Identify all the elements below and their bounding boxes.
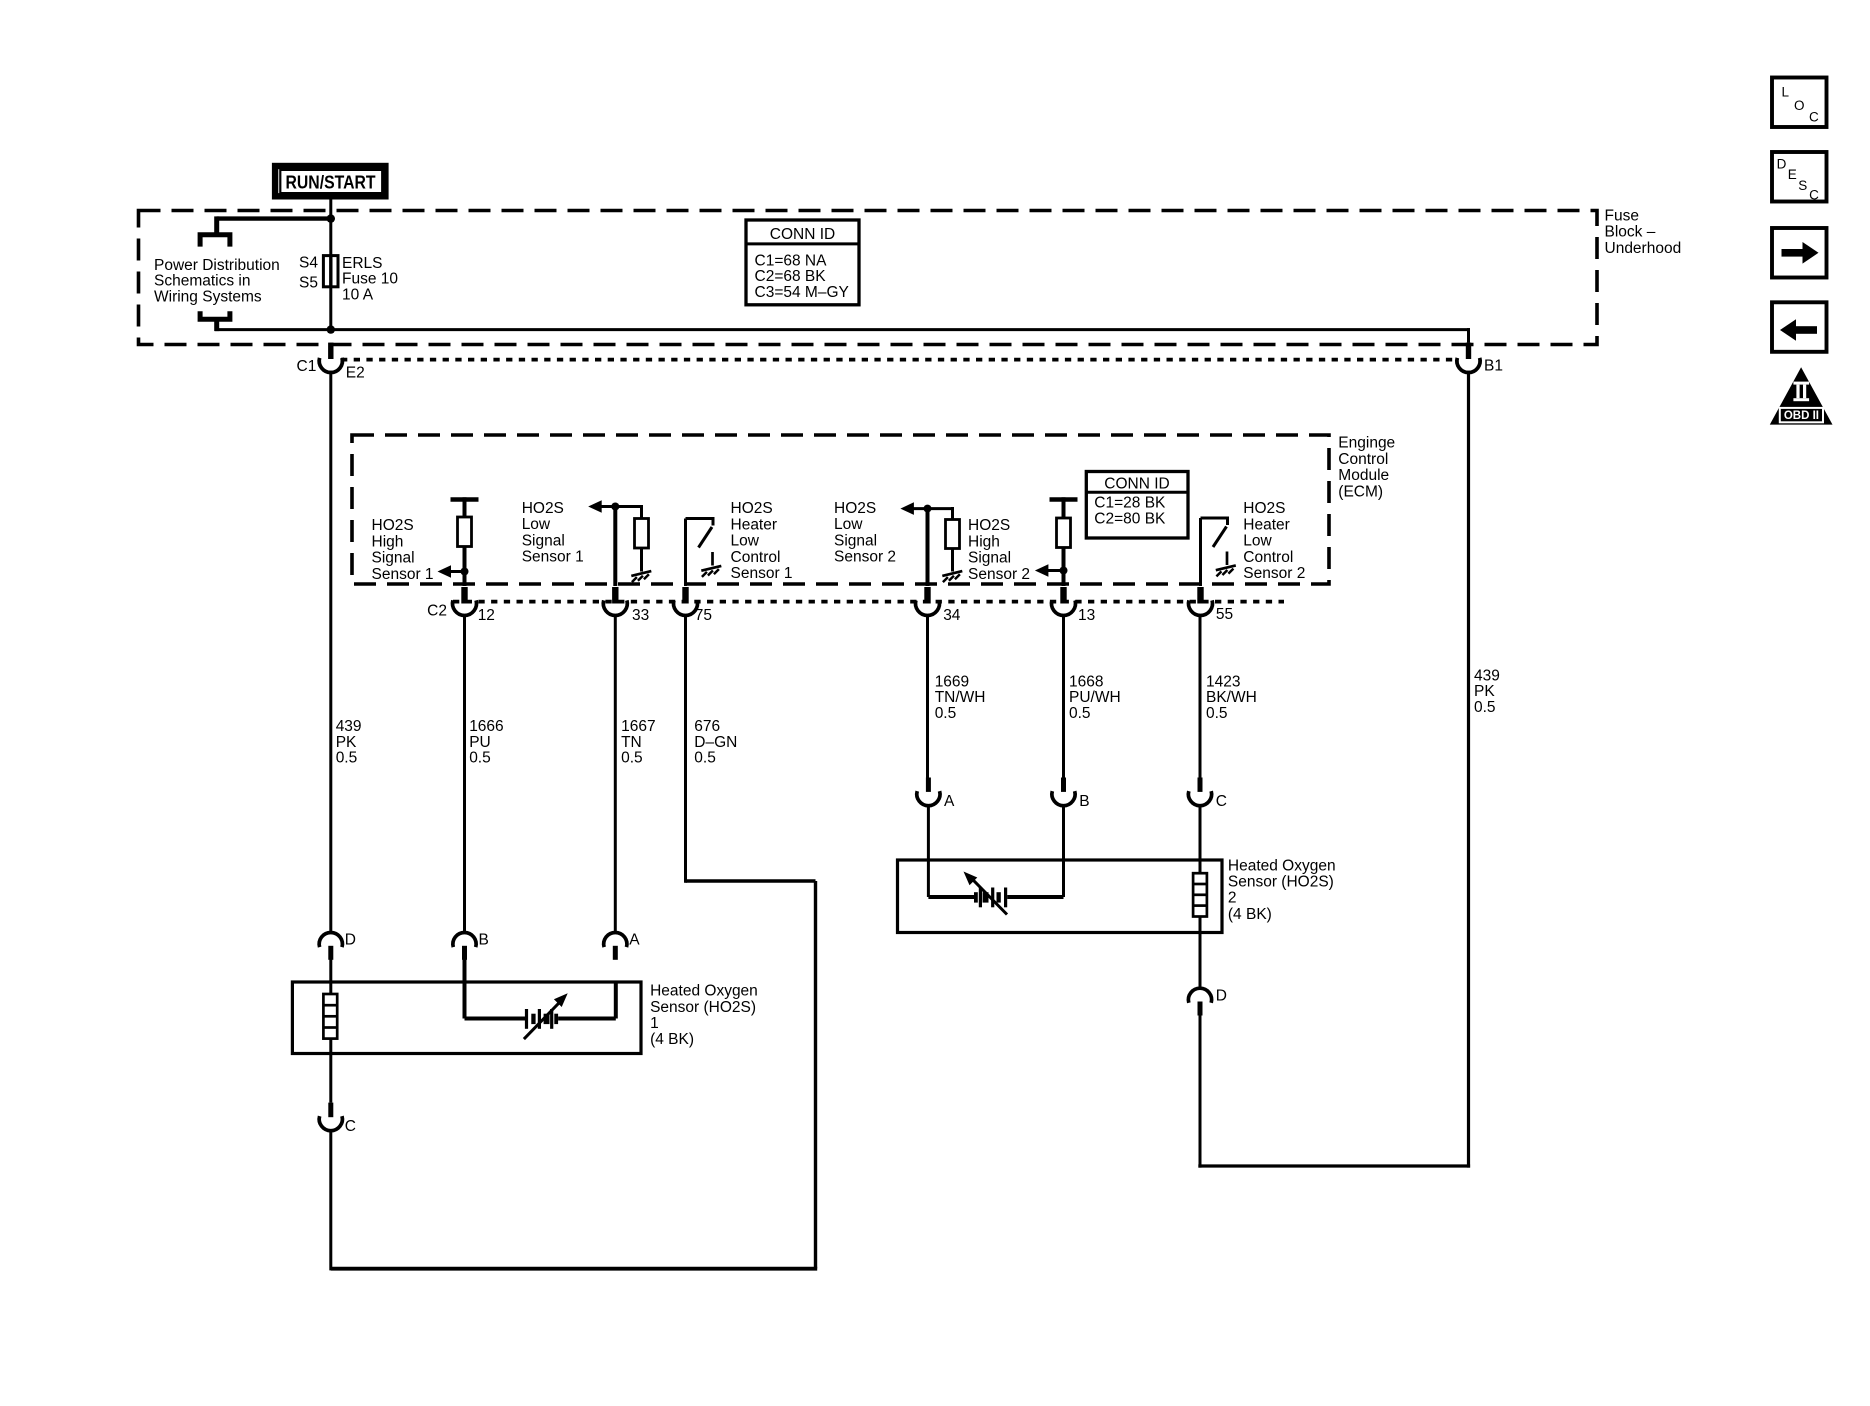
- svg-text:(ECM): (ECM): [1338, 483, 1383, 500]
- label pin C HO2S2: [1216, 793, 1227, 810]
- svg-text:B: B: [479, 932, 489, 949]
- svg-text:PK: PK: [336, 734, 357, 751]
- svg-text:Underhood: Underhood: [1605, 240, 1682, 257]
- label pin B HO2S1: [479, 932, 489, 949]
- svg-text:C1=28 BK: C1=28 BK: [1094, 494, 1166, 511]
- wire R2 to ground: [640, 548, 643, 572]
- wire pin D into heater element: [329, 960, 332, 996]
- svg-text:0.5: 0.5: [621, 750, 643, 767]
- label pin D HO2S1: [345, 932, 356, 949]
- label wire 1669 TN/WH 0.5: [935, 673, 986, 721]
- HO2S2 sensor box: [898, 860, 1223, 933]
- power distribution reference bracket top: [200, 235, 230, 247]
- svg-text:S4: S4: [299, 255, 318, 272]
- variable arrow HO2S1: [524, 993, 568, 1039]
- connector pin B HO2S2: [1052, 778, 1075, 806]
- resistor R4 HO2S high signal 2: [1057, 518, 1071, 548]
- label HO2S Heater Low Control Sensor 2: [1243, 500, 1305, 582]
- wire pin D to bottom right corner: [1199, 1015, 1202, 1167]
- junction dot pin 34 wire: [924, 505, 932, 513]
- svg-text:HO2S: HO2S: [968, 517, 1010, 534]
- wire heater element to pin C: [329, 1039, 332, 1103]
- svg-text:1: 1: [650, 1015, 659, 1032]
- fuse ERLS Fuse 10 10 A: [323, 255, 338, 287]
- ground HO2S heater 1: [701, 552, 721, 577]
- svg-text:Heated Oxygen: Heated Oxygen: [650, 983, 758, 1000]
- ECM pin 34 connector: [915, 587, 939, 615]
- svg-text:High: High: [968, 533, 1000, 550]
- label wire 1423 BK/WH 0.5: [1206, 673, 1257, 721]
- svg-text:1669: 1669: [935, 673, 969, 690]
- svg-text:13: 13: [1078, 607, 1095, 624]
- label wire 1666 PU 0.5: [469, 718, 503, 766]
- connector C1 pin E2 of fuse block: [319, 343, 342, 373]
- wire 1669 TN-WH from pin 34: [926, 614, 929, 778]
- wire pin C to bottom loop: [329, 1129, 332, 1270]
- connector pin A HO2S2: [917, 778, 940, 806]
- svg-text:C1=68 NA: C1=68 NA: [755, 253, 828, 270]
- connector line dotted ECM C2 row: [453, 600, 1284, 604]
- resistor R1 HO2S high signal 1: [458, 517, 472, 547]
- wire pin C to heater element HO2S2: [1199, 804, 1202, 874]
- svg-text:1666: 1666: [469, 718, 503, 735]
- CONN ID table ECM: [1086, 472, 1188, 539]
- svg-text:676: 676: [694, 718, 720, 735]
- svg-text:Sensor 1: Sensor 1: [731, 565, 793, 582]
- ignition switch voltage RUN/START box: [275, 166, 385, 196]
- svg-text:C: C: [1809, 187, 1819, 202]
- arrow to Low Signal Sensor 1 label: [588, 500, 641, 513]
- wire 1668 PU-WH from pin 13: [1062, 614, 1065, 778]
- label pin A HO2S1: [629, 932, 640, 949]
- svg-text:TN/WH: TN/WH: [935, 689, 986, 706]
- wire branch to R3: [951, 507, 954, 520]
- svg-text:PK: PK: [1474, 683, 1495, 700]
- label pin A HO2S2: [944, 793, 955, 810]
- svg-text:C3=54 M–GY: C3=54 M–GY: [755, 284, 849, 301]
- svg-text:PU: PU: [469, 734, 491, 751]
- wire branch to R2: [640, 505, 643, 519]
- label HO2S High Signal Sensor 1: [372, 517, 434, 583]
- svg-text:10 A: 10 A: [342, 286, 374, 303]
- wire pin B inside box: [465, 960, 526, 1019]
- ECM pin 12 connector: [453, 587, 477, 615]
- connector pin A HO2S1: [604, 932, 627, 959]
- svg-text:A: A: [629, 932, 640, 949]
- svg-text:Fuse 10: Fuse 10: [342, 271, 398, 288]
- svg-text:1423: 1423: [1206, 673, 1240, 690]
- svg-text:0.5: 0.5: [1069, 705, 1091, 722]
- arrow to Sensor 2 label: [1035, 564, 1064, 577]
- svg-text:0.5: 0.5: [694, 750, 716, 767]
- wire 1423 BK-WH from pin 55: [1199, 614, 1202, 778]
- wire heater element to pin D HO2S2: [1199, 917, 1202, 988]
- svg-text:HO2S: HO2S: [372, 517, 414, 534]
- label S4 S5 splice ids: [299, 255, 318, 292]
- svg-text:HO2S: HO2S: [834, 500, 876, 517]
- junction dot fuse output bus: [327, 325, 335, 333]
- label wire 1667 TN 0.5: [621, 718, 655, 766]
- label ERLS Fuse 10 10 A: [342, 255, 398, 303]
- wire pin 55: [1199, 518, 1202, 586]
- svg-text:A: A: [944, 793, 955, 810]
- junction dot pin 13 wire: [1060, 567, 1068, 575]
- svg-text:C1: C1: [297, 358, 317, 375]
- label E2: [346, 365, 365, 382]
- svg-text:439: 439: [336, 718, 362, 735]
- junction dot pin 33 wire: [611, 503, 619, 511]
- ground HO2S heater 2: [1216, 552, 1236, 577]
- label wire 439 PK 0.5 left: [336, 718, 362, 766]
- label HO2S Heater Low Control Sensor 1: [731, 500, 793, 582]
- icon back arrow box: [1772, 302, 1827, 352]
- wire pin 33: [613, 507, 617, 587]
- label HO2S Low Signal Sensor 1: [522, 500, 584, 566]
- svg-text:Control: Control: [1338, 451, 1388, 468]
- svg-text:Signal: Signal: [834, 532, 877, 549]
- svg-text:55: 55: [1216, 606, 1233, 623]
- svg-text:E: E: [1788, 167, 1797, 182]
- svg-text:HO2S: HO2S: [731, 500, 773, 517]
- label pin 33: [632, 607, 649, 624]
- svg-text:Schematics in: Schematics in: [154, 273, 250, 290]
- svg-text:CONN ID: CONN ID: [1104, 475, 1169, 492]
- connector pin D HO2S2: [1188, 988, 1211, 1015]
- connector pin C HO2S1: [319, 1103, 342, 1131]
- ground HO2S low signal 1: [631, 571, 651, 582]
- svg-text:Sensor (HO2S): Sensor (HO2S): [650, 999, 756, 1016]
- svg-text:HO2S: HO2S: [522, 500, 564, 517]
- label pin 75: [695, 607, 712, 624]
- svg-text:Signal: Signal: [968, 550, 1011, 567]
- svg-text:(4 BK): (4 BK): [650, 1031, 694, 1048]
- svg-text:0.5: 0.5: [469, 750, 491, 767]
- svg-text:Power Distribution: Power Distribution: [154, 257, 280, 274]
- svg-text:Wiring Systems: Wiring Systems: [154, 288, 262, 305]
- icon DESC box: [1772, 152, 1827, 202]
- svg-text:2: 2: [1228, 890, 1237, 907]
- variable sense element HO2S2 plates: [974, 888, 1007, 908]
- power distribution reference bracket bottom: [200, 311, 230, 319]
- label Power Distribution Schematics in Wiring Systems: [154, 257, 280, 305]
- label Heated Oxygen Sensor (HO2S) 1 (4 BK): [650, 983, 758, 1048]
- label wire 676 D-GN 0.5: [694, 718, 737, 766]
- wire fuse output to bus: [329, 287, 332, 331]
- driver switch HO2S heater 2: [1201, 517, 1228, 548]
- svg-text:Signal: Signal: [522, 532, 565, 549]
- svg-text:D: D: [1777, 156, 1787, 171]
- ground HO2S low signal 2: [942, 571, 962, 582]
- label pin 12: [478, 607, 495, 624]
- svg-text:Low: Low: [1243, 533, 1272, 550]
- svg-text:C2=68 BK: C2=68 BK: [755, 268, 827, 285]
- icon OBD II triangle: [1770, 367, 1833, 424]
- resistor R3 HO2S low signal 2: [946, 520, 960, 549]
- svg-text:D: D: [345, 932, 356, 949]
- ECM dashed box: [352, 435, 1329, 584]
- svg-text:ERLS: ERLS: [342, 255, 383, 272]
- svg-text:Low: Low: [731, 533, 760, 550]
- label Fuse Block - Underhood: [1605, 207, 1682, 256]
- svg-text:CONN ID: CONN ID: [770, 226, 835, 243]
- label B1: [1484, 358, 1503, 375]
- svg-text:Sensor 2: Sensor 2: [834, 549, 896, 566]
- svg-text:O: O: [1794, 98, 1805, 113]
- svg-text:D–GN: D–GN: [694, 734, 737, 751]
- svg-text:C: C: [1809, 110, 1819, 125]
- label pin D HO2S2: [1216, 987, 1227, 1004]
- svg-text:Signal: Signal: [372, 550, 415, 567]
- label pin C HO2S1: [345, 1118, 356, 1135]
- arrow to Low Signal Sensor 2 label: [900, 502, 952, 515]
- svg-text:0.5: 0.5: [1474, 699, 1496, 716]
- svg-text:Sensor 1: Sensor 1: [522, 549, 584, 566]
- svg-text:Sensor 2: Sensor 2: [1243, 565, 1305, 582]
- svg-text:RUN/START: RUN/START: [286, 173, 376, 193]
- svg-text:E2: E2: [346, 365, 365, 382]
- label C1: [297, 358, 317, 375]
- svg-text:Sensor 1: Sensor 1: [372, 566, 434, 583]
- wire 676 D-GN from pin 75 to HO2S1 pin C loop: [331, 614, 817, 1269]
- icon LOC box: [1772, 78, 1827, 128]
- wire pin 75: [684, 519, 687, 587]
- svg-text:C2=80 BK: C2=80 BK: [1094, 511, 1166, 528]
- svg-text:D: D: [1216, 987, 1227, 1004]
- svg-text:0.5: 0.5: [935, 705, 957, 722]
- CONN ID table fuse block: [746, 220, 859, 305]
- svg-text:Heater: Heater: [731, 516, 778, 533]
- svg-text:Block –: Block –: [1605, 224, 1656, 241]
- wire 1667 TN from pin 33 to HO2S1 pin A: [614, 614, 617, 932]
- svg-text:Control: Control: [731, 549, 781, 566]
- svg-text:0.5: 0.5: [336, 750, 358, 767]
- ECM pin 55 connector: [1189, 587, 1213, 615]
- label wire 1668 PU/WH 0.5: [1069, 673, 1121, 721]
- svg-text:Fuse: Fuse: [1605, 207, 1639, 224]
- wire 439 PK from C1 to HO2S1 pin D: [329, 371, 332, 932]
- svg-text:(4 BK): (4 BK): [1228, 906, 1272, 923]
- svg-text:Low: Low: [834, 516, 863, 533]
- wire R3 to ground: [951, 549, 954, 572]
- label pin 13: [1078, 607, 1095, 624]
- heater element HO2S1: [323, 994, 337, 1039]
- wire R4 to pin 13: [1062, 548, 1066, 587]
- svg-text:1668: 1668: [1069, 673, 1103, 690]
- internal supply T-bar sensor1 high: [451, 497, 479, 517]
- svg-text:B: B: [1079, 793, 1089, 810]
- driver switch HO2S heater 1: [686, 517, 714, 548]
- svg-text:TN: TN: [621, 734, 642, 751]
- wire pin A inside box HO2S2: [928, 804, 974, 897]
- fuse block underhood dashed box: [139, 211, 1598, 345]
- icon forward arrow box: [1772, 228, 1827, 278]
- arrow to Sensor 1 label: [438, 565, 465, 578]
- wire from reference bracket to bus: [214, 319, 219, 331]
- label Enginge Control Module (ECM): [1338, 435, 1395, 501]
- wire pin 34: [926, 509, 930, 586]
- internal supply T-bar sensor2 high: [1050, 497, 1078, 518]
- svg-text:B1: B1: [1484, 358, 1503, 375]
- svg-text:34: 34: [943, 607, 961, 624]
- svg-text:Sensor (HO2S): Sensor (HO2S): [1228, 874, 1334, 891]
- variable sense element HO2S1 plates: [525, 1009, 558, 1029]
- heater element HO2S2: [1193, 873, 1207, 916]
- svg-text:BK/WH: BK/WH: [1206, 689, 1257, 706]
- resistor R2 HO2S low signal 1: [635, 519, 649, 549]
- svg-text:Sensor 2: Sensor 2: [968, 566, 1030, 583]
- label pin 55: [1216, 606, 1233, 623]
- svg-text:S5: S5: [299, 274, 318, 291]
- svg-text:75: 75: [695, 607, 712, 624]
- connector pin D HO2S1: [319, 932, 342, 959]
- wire bus to connector B1: [215, 328, 1470, 343]
- junction dot ignition feed: [327, 214, 335, 222]
- connector B1 of fuse block: [1457, 343, 1480, 373]
- label pin 34: [943, 607, 961, 624]
- HO2S1 sensor box: [292, 982, 641, 1054]
- label C2: [427, 603, 447, 620]
- ECM pin 75 connector: [674, 587, 698, 615]
- svg-text:439: 439: [1474, 668, 1500, 685]
- label Heated Oxygen Sensor (HO2S) 2 (4 BK): [1228, 858, 1336, 923]
- svg-text:Heater: Heater: [1243, 516, 1290, 533]
- svg-text:Module: Module: [1338, 467, 1389, 484]
- svg-text:Enginge: Enginge: [1338, 435, 1395, 452]
- svg-text:PU/WH: PU/WH: [1069, 689, 1121, 706]
- wire 439 PK right from B1: [1198, 371, 1470, 1168]
- svg-text:S: S: [1798, 178, 1807, 193]
- label HO2S Low Signal Sensor 2: [834, 500, 896, 566]
- wire sense element to pin B HO2S2: [1007, 804, 1063, 897]
- svg-text:C: C: [345, 1118, 356, 1135]
- svg-text:C: C: [1216, 793, 1227, 810]
- ECM pin 33 connector: [603, 587, 627, 615]
- wire branch to power distribution reference: [217, 216, 331, 234]
- svg-text:L: L: [1782, 85, 1790, 100]
- svg-text:0.5: 0.5: [1206, 705, 1228, 722]
- connector pin B HO2S1: [453, 932, 476, 959]
- svg-text:Control: Control: [1243, 549, 1293, 566]
- svg-text:33: 33: [632, 607, 649, 624]
- label HO2S High Signal Sensor 2: [968, 517, 1030, 583]
- variable arrow HO2S2: [964, 872, 1008, 915]
- svg-text:C2: C2: [427, 603, 447, 620]
- svg-text:1667: 1667: [621, 718, 655, 735]
- wire 1666 PU from pin 12 to HO2S1 pin B: [463, 614, 466, 932]
- svg-text:OBD II: OBD II: [1784, 410, 1819, 422]
- junction dot pin 12 wire: [461, 568, 469, 576]
- svg-text:12: 12: [478, 607, 495, 624]
- svg-text:High: High: [372, 533, 404, 550]
- wire ignition feed from RUN/START: [329, 199, 332, 255]
- svg-text:Low: Low: [522, 516, 551, 533]
- connector pin C HO2S2: [1188, 778, 1211, 806]
- wire R1 to pin 12: [463, 547, 467, 587]
- wire sense element to pin A: [558, 982, 616, 1019]
- svg-text:HO2S: HO2S: [1243, 500, 1285, 517]
- svg-text:Heated Oxygen: Heated Oxygen: [1228, 858, 1336, 875]
- label pin B HO2S2: [1079, 793, 1089, 810]
- connector line dotted C1 to B1: [341, 358, 1457, 362]
- label wire 439 PK 0.5 right: [1474, 668, 1500, 716]
- ECM pin 13 connector: [1052, 587, 1076, 615]
